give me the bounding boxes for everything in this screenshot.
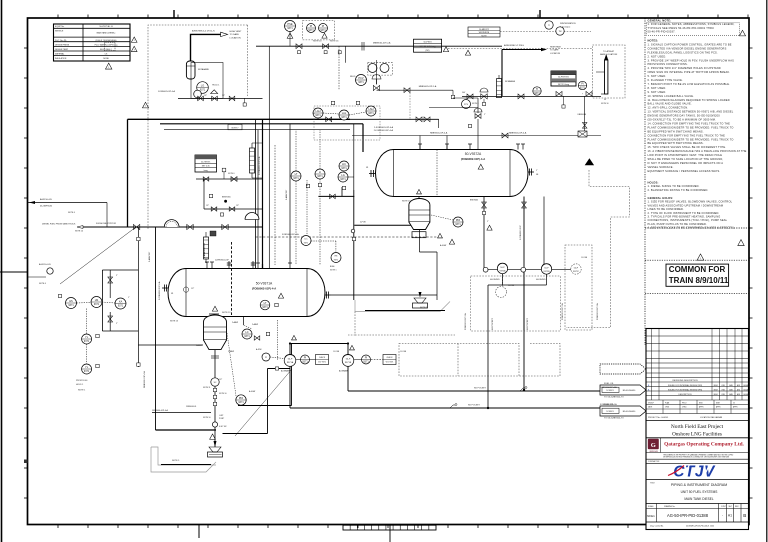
vessel2 left nozzle: [366, 167, 376, 177]
svg-text:BRK9065: BRK9065: [470, 200, 478, 202]
svg-text:Onshore LNG Facilities: Onshore LNG Facilities: [672, 431, 722, 437]
svg-text:LG: LG: [201, 84, 204, 88]
svg-text:YL: YL: [85, 335, 89, 339]
vessel2 bottom outlet A: [470, 197, 489, 269]
svg-text:North Field East Project: North Field East Project: [671, 424, 724, 430]
svg-text:LIC: LIC: [342, 162, 346, 166]
vessel1 bottom outlet LC: [232, 317, 270, 341]
vessel 50-V9371A: [168, 269, 325, 323]
parallel riser: [255, 119, 257, 268]
svg-text:TO SAFE: TO SAFE: [230, 33, 240, 36]
notes text: holds: [648, 181, 709, 192]
left lower instrument pair: [76, 309, 99, 392]
svg-text:DESIGN TEMP: DESIGN TEMP: [55, 49, 69, 51]
svg-text:HS: HS: [69, 299, 73, 303]
svg-text:AG9150-4-N: AG9150-4-N: [40, 198, 52, 201]
vessel2 bottom outlet B: [522, 197, 527, 392]
svg-text:PDI: PDI: [239, 396, 244, 400]
small drain tag: [183, 287, 194, 292]
vessel1 right outlet line: [331, 252, 437, 295]
note triangle 3: [131, 46, 137, 51]
title block fine print: [646, 453, 749, 463]
svg-text:BRK9065: BRK9065: [222, 197, 231, 199]
svg-text:2-ABW: 2-ABW: [232, 321, 238, 324]
LO tag under main line: [203, 231, 216, 258]
svg-text:(2000 X 7100 MM HIGH): (2000 X 7100 MM HIGH): [96, 40, 117, 42]
right pump suction header: [471, 267, 581, 331]
svg-text:1/2": 1/2": [191, 288, 194, 290]
svg-text:(FOB9062-01P)-4-A: (FOB9062-01P)-4-A: [252, 286, 276, 290]
suction from drain box: [238, 344, 292, 406]
svg-text:A-4GW: A-4GW: [440, 244, 446, 247]
scattered note triangles: [292, 225, 493, 350]
svg-text:1/2": 1/2": [204, 95, 207, 97]
svg-text:6. FLANGED TYPE VALVE.: 6. FLANGED TYPE VALVE.: [648, 78, 683, 82]
svg-text:46-GBF9046: 46-GBF9046: [40, 205, 53, 207]
vessel1 left nozzle: [162, 285, 173, 296]
svg-text:TRAIN 8/9/10/11: TRAIN 8/9/10/11: [669, 276, 729, 285]
svg-text:barg: barg: [204, 169, 208, 172]
title block frame: [646, 329, 749, 530]
svg-text:LI: LI: [319, 170, 321, 174]
svg-text:NBB9062-01P-4-A: NBB9062-01P-4-A: [430, 132, 448, 135]
svg-text:3. PROVIDE 1/4" WEEP HOLE IN: 3. PROVIDE 1/4" WEEP HOLE IN PSV, FLUSH …: [648, 58, 735, 62]
note triangle 1: [105, 63, 111, 69]
AG9150 utility arrow left: [28, 198, 108, 227]
filter 50-F9372: [409, 189, 430, 237]
svg-text:NO POCKET: NO POCKET: [468, 405, 481, 407]
svg-text:9371: 9371: [320, 29, 326, 32]
svg-text:LC: LC: [245, 330, 248, 334]
svg-text:CLOSE: CLOSE: [400, 351, 407, 353]
svg-text:TO 65-GZB9102-T3: TO 65-GZB9102-T3: [604, 397, 624, 399]
KO pot 50-ML9371: [186, 61, 209, 79]
svg-text:NOTE 13: NOTE 13: [222, 312, 231, 314]
pump 50-P9372A: [490, 263, 508, 281]
svg-text:PI: PI: [365, 356, 368, 360]
svg-text:B: B: [743, 513, 746, 518]
fuel oil line B: [290, 403, 617, 408]
sheet left trim line: [1, 0, 3, 542]
notes text: numbered notes: [648, 39, 747, 173]
svg-text:ISSUED FOR INTERNAL REVIEW (IF: ISSUED FOR INTERNAL REVIEW (IFR): [668, 384, 703, 387]
left instrument trio: [58, 294, 126, 309]
svg-text:NOTES:: NOTES:: [648, 39, 659, 43]
svg-text:P.& T. No. (B): P.& T. No. (B): [55, 40, 67, 42]
svg-text:4-30" SIC: 4-30" SIC: [219, 426, 227, 428]
drawing title text: [650, 483, 727, 502]
svg-text:NOTE 14: NOTE 14: [75, 231, 83, 233]
svg-text:1. DIESEL SIZING TO BE CONFI: 1. DIESEL SIZING TO BE CONFIRMED.: [648, 184, 700, 188]
svg-text:DRB9066-01P-4-A: DRB9066-01P-4-A: [152, 409, 169, 412]
svg-text:BE EQUIPPED WITH SWITCHING MEA: BE EQUIPPED WITH SWITCHING MEANS.: [648, 129, 704, 133]
diagonal instrument line: [60, 227, 136, 284]
relief table B4: [551, 71, 576, 86]
dashed stub near vessel2: [409, 90, 411, 120]
svg-text:WINTERIZE: WINTERIZE: [479, 32, 490, 34]
svg-text:KBB9066: KBB9066: [578, 114, 587, 116]
svg-text:EQUIPMENT SURFACE / PERSONNEL: EQUIPMENT SURFACE / PERSONNEL ACCESS WAY…: [648, 169, 721, 173]
svg-text:1: 1: [108, 67, 109, 69]
vessel2 top nozzle flanges: [418, 144, 525, 150]
future pump below P4: [496, 274, 515, 298]
common-for-train box: [645, 260, 749, 293]
filter B drain pad: [355, 300, 450, 312]
svg-text:2-FOB: 2-FOB: [360, 222, 366, 224]
svg-text:NOTE 11: NOTE 11: [203, 387, 210, 389]
svg-text:NOTE 1: NOTE 1: [78, 390, 86, 392]
svg-text:9371: 9371: [200, 89, 206, 92]
svg-text:G: G: [651, 442, 656, 449]
svg-text:FULL WATER+0.5/FV barg: FULL WATER+0.5/FV barg: [95, 44, 118, 47]
temporary strainer: [164, 220, 179, 227]
svg-text:9371: 9371: [358, 81, 364, 84]
svg-text:CHECK: CHECK: [386, 357, 393, 359]
svg-text:LOW POINT IN ATMOSPHERIC VENT.: LOW POINT IN ATMOSPHERIC VENT. THE DRAIN…: [648, 153, 723, 157]
svg-text:NOTE 6: NOTE 6: [472, 103, 479, 105]
svg-text:PI: PI: [581, 82, 584, 86]
level bridle 2: [250, 143, 263, 178]
svg-text:Qatargas Operating Company Ltd: Qatargas Operating Company Ltd.: [664, 441, 744, 447]
hold triangle below notes: [697, 254, 704, 260]
blanket gas station upper: [196, 168, 263, 209]
svg-text:1/2": 1/2": [219, 379, 222, 381]
svg-text:PLAN, PUMP OUTFLUS TO BE CONFI: PLAN, PUMP OUTFLUS TO BE CONFIRMED.: [648, 222, 707, 226]
filter A PDI bubble: [227, 333, 255, 405]
blanketing instrument drop: [339, 46, 389, 90]
vessel2 internal standpipe: [436, 150, 438, 197]
svg-text:9371: 9371: [308, 29, 314, 32]
black vent triangle: [585, 158, 594, 165]
svg-text:MGM: MGM: [714, 389, 719, 391]
svg-text:(50-GXX/9117-T3), TO BE A MINI: (50-GXX/9117-T3), TO BE A MINIMUM OF 300…: [648, 118, 717, 122]
svg-text:VESSEL SURFACE.: VESSEL SURFACE.: [648, 165, 674, 169]
svg-text:PDI: PDI: [456, 218, 461, 222]
svg-text:CLOSE: CLOSE: [333, 351, 340, 353]
PSV summary table B3: [414, 39, 471, 55]
svg-text:IF NOT IT ENDANGERS PERSONNEL: IF NOT IT ENDANGERS PERSONNEL OR IMPACTS…: [648, 161, 724, 165]
svg-text:9371: 9371: [363, 361, 369, 364]
svg-text:9371: 9371: [302, 361, 308, 364]
notes text: general note: [647, 19, 746, 36]
dashed signal line upper: [500, 31, 591, 33]
svg-text:9372A: 9372A: [499, 269, 506, 272]
svg-text:HOLDS:: HOLDS:: [648, 181, 659, 185]
svg-text:2-FOB9062-01P-4-A: 2-FOB9062-01P-4-A: [258, 156, 261, 175]
svg-text:TO ATM AT: TO ATM AT: [603, 50, 615, 53]
svg-text:50-TK9371: 50-TK9371: [201, 161, 210, 163]
svg-text:1: 1: [145, 106, 146, 108]
svg-text:4. ESD INTERLOCKS TO BE CONF: 4. ESD INTERLOCKS TO BE CONFIRMED (CAUSE…: [648, 226, 735, 230]
vessel1 inlet manifold: [102, 270, 138, 331]
svg-text:TW: TW: [558, 31, 561, 33]
svg-text:LOCATION: LOCATION: [550, 52, 561, 55]
svg-text:NO POCKET: NO POCKET: [492, 317, 494, 330]
svg-text:PSE: PSE: [287, 22, 292, 26]
svg-text:9371: 9371: [317, 175, 323, 178]
svg-text:CTJV: CTJV: [673, 464, 716, 481]
future connector flag (dotted): [600, 364, 646, 374]
pump 50-P9371B: [339, 344, 354, 392]
vent header valves: [296, 41, 391, 53]
svg-text:BLA9: BLA9: [330, 265, 334, 268]
svg-text:YL: YL: [85, 365, 89, 369]
vessel2 nozzle risers: [420, 136, 447, 150]
svg-text:9371: 9371: [84, 370, 90, 373]
fuel oil line A: [348, 386, 617, 391]
svg-text:PIPING & INSTRUMENT DIAGRAM: PIPING & INSTRUMENT DIAGRAM: [671, 483, 727, 487]
svg-text:9371: 9371: [68, 304, 74, 307]
svg-text:8. NOT USED.: 8. NOT USED.: [648, 86, 667, 90]
svg-text:NOTE 16: NOTE 16: [330, 41, 339, 43]
fuel oil connector flag A: [600, 383, 646, 398]
svg-text:FOB9063-01P-4-A: FOB9063-01P-4-A: [600, 386, 617, 389]
dashed vent-to-atm box D3: [593, 45, 626, 98]
svg-text:57-B921: 57-B921: [606, 411, 614, 413]
svg-text:GENERAL NOTE:: GENERAL NOTE:: [648, 19, 672, 23]
high vent arrow top-left: [191, 29, 243, 61]
svg-text:MGM: MGM: [714, 385, 719, 387]
svg-text:GROUP: GROUP: [648, 403, 654, 405]
level gauge column center: [497, 75, 516, 98]
svg-text:LT: LT: [295, 172, 298, 176]
svg-text:NOTE 3: NOTE 3: [420, 307, 428, 309]
svg-text:2. NOT USED.: 2. NOT USED.: [648, 54, 667, 58]
sheet left margin mark: [0, 271, 28, 273]
blanket gas station lower: [204, 205, 263, 216]
svg-text:XA: XA: [119, 300, 123, 304]
svg-text:2: 2: [134, 40, 135, 42]
pump header thick: [289, 342, 349, 344]
svg-text:2-ABW-9097-3J: 2-ABW-9097-3J: [203, 243, 206, 258]
svg-text:KETAHANB: KETAHANB: [505, 80, 516, 83]
svg-text:9371: 9371: [455, 223, 461, 226]
filter 50-F9371: [196, 306, 234, 353]
equipment data table: [54, 24, 131, 61]
fuel oil connector flag B: [600, 404, 646, 419]
vessel2 left-bottom piping: [318, 187, 419, 300]
svg-text:FOB9063-01P-3-A: FOB9063-01P-3-A: [561, 303, 564, 320]
svg-text:5. NOT USED.: 5. NOT USED.: [648, 74, 667, 78]
svg-text:40/45WE1-0F005-PID-00121 1000: 40/45WE1-0F005-PID-00121 1000: [686, 526, 714, 528]
svg-text:LINES TO BE CONFIRMED.: LINES TO BE CONFIRMED.: [648, 207, 685, 211]
svg-text:LT: LT: [264, 301, 267, 305]
label table B1: [195, 155, 217, 172]
svg-text:NOTE 10: NOTE 10: [313, 41, 322, 43]
svg-text:LOCATION: LOCATION: [230, 36, 241, 39]
svg-text:LSH: LSH: [368, 107, 373, 111]
notes text: general holds: [648, 196, 745, 246]
svg-text:LAH: LAH: [315, 109, 320, 113]
note triangle 2: [131, 37, 137, 42]
under-vessel drain header: [138, 345, 203, 388]
svg-text:50-PSV9372: 50-PSV9372: [558, 77, 569, 79]
svg-text:3. TYPICALS FOR PRE-BONNET H: 3. TYPICALS FOR PRE-BONNET HEATING, SAMP…: [648, 215, 721, 219]
svg-text:1/2": 1/2": [236, 205, 239, 207]
svg-text:2-FOB9063-01P: 2-FOB9063-01P: [520, 225, 522, 240]
rotated line labels right: [464, 303, 599, 330]
svg-text:DRAWING No.: DRAWING No.: [664, 505, 676, 508]
pump A local PI: [256, 348, 284, 361]
svg-text:NO POCKET: NO POCKET: [474, 388, 487, 390]
svg-text:50-PSV4: 50-PSV4: [423, 42, 432, 44]
svg-text:50-P: 50-P: [574, 268, 579, 270]
svg-text:NOTE 4: NOTE 4: [68, 212, 75, 214]
svg-text:ALISWABF: ALISWABF: [281, 370, 291, 373]
svg-text:NFE1: NFE1: [647, 514, 655, 518]
svg-text:DRB9066-01: DRB9066-01: [186, 406, 196, 408]
svg-text:10. SPRING LOADED BALL VALVE.: 10. SPRING LOADED BALL VALVE.: [648, 94, 695, 98]
svg-text:2-ABW: 2-ABW: [228, 350, 234, 353]
svg-text:PROVISIONS CONNECTIONS.: PROVISIONS CONNECTIONS.: [648, 62, 688, 66]
NBB line right: [352, 132, 601, 138]
KO pot instruments: [158, 82, 220, 98]
svg-text:FLEXHOSE AT PRYOR: FLEXHOSE AT PRYOR: [96, 222, 117, 225]
svg-text:9371: 9371: [293, 177, 299, 180]
dashed battery limit box D1: [148, 25, 248, 230]
drawing number block: [646, 504, 749, 530]
svg-text:VALVES AND ASSOCIATED UPSTREAM: VALVES AND ASSOCIATED UPSTREAM / DOWNSTR…: [648, 203, 724, 207]
svg-text:POINT: POINT: [219, 418, 224, 420]
svg-text:NOTE 4: NOTE 4: [39, 283, 46, 285]
filter B drain funnel: [413, 292, 428, 308]
svg-text:2-ABW: 2-ABW: [252, 323, 258, 326]
svg-text:A1: A1: [728, 514, 732, 518]
strainer 2 on riser: [245, 213, 259, 220]
LIC transfer instruments: [301, 180, 341, 272]
svg-text:REVISIONS DESCRIPTION: REVISIONS DESCRIPTION: [672, 380, 698, 382]
svg-text:NONE: NONE: [103, 58, 109, 60]
svg-text:9372C: 9372C: [573, 271, 580, 273]
svg-text:-: -: [722, 514, 723, 518]
svg-text:50-V9371A: 50-V9371A: [256, 282, 273, 286]
svg-text:16. A VIBRATION/SEISMIC/GAUGE: 16. A VIBRATION/SEISMIC/GAUGE HAS A SWAN…: [648, 149, 747, 153]
svg-text:MBB9062-01P-2-A: MBB9062-01P-2-A: [373, 41, 391, 44]
svg-text:LIC: LIC: [304, 239, 308, 241]
svg-text:50-P: 50-P: [500, 267, 505, 269]
svg-text:MBB9062-01P-1-A: MBB9062-01P-1-A: [419, 85, 437, 88]
svg-text:N4: N4: [536, 174, 538, 176]
dashed staircase boundary right: [566, 170, 630, 328]
svg-text:9371: 9371: [94, 303, 100, 306]
vent stack: [596, 54, 608, 94]
svg-text:40-DW4905: 40-DW4905: [490, 279, 500, 281]
pump B suction from vessel2: [543, 197, 545, 265]
svg-text:SET 0.35: SET 0.35: [202, 166, 210, 168]
dashed instrument box (hold): [368, 63, 393, 75]
svg-text:Dwg. Control No.: Dwg. Control No.: [650, 525, 664, 528]
svg-text:SHALL BE PIPED TO SAFE LOCATIO: SHALL BE PIPED TO SAFE LOCATION AT THE G…: [648, 157, 724, 161]
svg-text:2-FOB9062-01P-4-A: 2-FOB9062-01P-4-A: [374, 126, 394, 129]
svg-text:AIRBORNE-6-4 1/P-6L-N: AIRBORNE-6-4 1/P-6L-N: [192, 29, 215, 32]
control valve station mid: [462, 87, 541, 106]
svg-text:9371: 9371: [341, 116, 347, 119]
svg-text:3: 3: [134, 50, 135, 52]
svg-text:SHT: SHT: [729, 506, 732, 508]
svg-text:9371: 9371: [341, 167, 347, 170]
svg-text:50-P: 50-P: [544, 268, 549, 270]
svg-text:2-FOB9062-01P-4-A: 2-FOB9062-01P-4-A: [158, 281, 161, 300]
svg-text:VLV 9371: VLV 9371: [386, 362, 394, 364]
winterization bubbles: [545, 21, 564, 35]
svg-text:1. SIGNALS CAPTION POWER CON: 1. SIGNALS CAPTION POWER CONTROL, GRATES…: [648, 42, 732, 46]
notes panel boundary: [644, 18, 646, 345]
dashed vendor box above vessel2: [303, 21, 335, 40]
filter A outlet train: [152, 350, 227, 447]
vessel1 top nozzles: [205, 124, 292, 269]
vessel2 blanket valve cluster: [429, 98, 486, 150]
dashed signal line to vent box: [448, 48, 593, 50]
svg-text:BALL VALVE AND GLOBE VALVE.: BALL VALVE AND GLOBE VALVE.: [648, 102, 692, 106]
upper instrument bubbles row: [313, 101, 376, 120]
svg-text:NO POCKET: NO POCKET: [527, 317, 529, 330]
svg-text:1/2": 1/2": [222, 95, 225, 97]
bubble row dashed enclosure: [314, 106, 380, 140]
vessel1 nozzle flange stubs: [215, 260, 255, 269]
svg-text:FOB9062-01P-4-A: FOB9062-01P-4-A: [158, 90, 175, 93]
KO pot drain line: [178, 95, 263, 106]
svg-text:DESCRIPTION: DESCRIPTION: [679, 394, 693, 396]
svg-text:50-46-PR-PID-00037.: 50-46-PR-PID-00037.: [648, 30, 676, 34]
dashed region around drain header: [348, 312, 355, 336]
svg-text:9371: 9371: [262, 306, 268, 309]
svg-text:9371B: 9371B: [345, 362, 352, 364]
svg-text:7. BRANCH POINT TO BE AS LOW: 7. BRANCH POINT TO BE AS LOW ELEVATION A…: [648, 82, 731, 86]
svg-text:LAL: LAL: [342, 111, 347, 115]
svg-text:LOCATION: RAS LAFFAN: LOCATION: RAS LAFFAN: [700, 416, 723, 419]
KO pot enclosure: [191, 63, 223, 99]
svg-text:9371: 9371: [244, 335, 250, 338]
svg-text:50-V9371 A/...B: 50-V9371 A/...B: [99, 25, 113, 28]
svg-text:NOTE 6: NOTE 6: [228, 173, 235, 175]
svg-text:SET AT 0.35 barg: SET AT 0.35 barg: [420, 45, 436, 48]
vent header line: [256, 46, 502, 268]
svg-text:2-FOB9062-01P-4-A: 2-FOB9062-01P-4-A: [374, 129, 394, 132]
svg-text:2. BLANKETING RATING TO BE C: 2. BLANKETING RATING TO BE CONFIRMED.: [648, 188, 709, 192]
svg-text:(FOB9062-01P)-4-A: (FOB9062-01P)-4-A: [461, 157, 485, 161]
svg-text:MAIN TANK DIESEL: MAIN TANK DIESEL: [684, 497, 714, 501]
svg-text:A-45W: A-45W: [256, 348, 262, 351]
PI bubble near stack: [578, 81, 586, 94]
svg-text:12. ANTI-SPILL CONNECTION.: 12. ANTI-SPILL CONNECTION.: [648, 106, 689, 110]
svg-text:9371: 9371: [580, 87, 586, 90]
svg-text:COMMON FOR: COMMON FOR: [669, 265, 726, 274]
between-vessel instrument bubbles: [291, 130, 349, 265]
svg-text:9371: 9371: [238, 401, 244, 404]
vessel2 level gauge cluster: [338, 124, 354, 190]
svg-text:PI: PI: [304, 356, 307, 360]
drain funnel: [208, 447, 223, 457]
svg-text:CONT: CONT: [721, 506, 726, 508]
svg-text:9. NOT USED.: 9. NOT USED.: [648, 90, 667, 94]
svg-text:11. BALL/CHECK/GLACIERS REQUIR: 11. BALL/CHECK/GLACIERS REQUIRED TO SPRI…: [648, 98, 730, 102]
svg-text:AG-50-IPR-PID-01388: AG-50-IPR-PID-01388: [667, 513, 709, 518]
svg-text:CONNECTED VIA VENDOR DIESEL EN: CONNECTED VIA VENDOR DIESEL ENGINE GENER…: [648, 46, 727, 50]
svg-text:UNIT 50 FUEL SYSTEMS: UNIT 50 FUEL SYSTEMS: [681, 490, 718, 494]
svg-text:N1: N1: [366, 167, 368, 169]
svg-text:NOTE 5: NOTE 5: [172, 460, 180, 462]
svg-text:WINTERIZATION: WINTERIZATION: [560, 22, 576, 25]
graphic scale bar: [343, 525, 436, 542]
project name: [646, 424, 749, 438]
dashed future-pump region bottom center: [355, 335, 560, 376]
svg-text:INSULATION: INSULATION: [55, 57, 67, 60]
svg-text:NBB9062-01P-4-A: NBB9062-01P-4-A: [509, 132, 527, 135]
instrument air line: [256, 233, 438, 237]
svg-text:VLV 9371: VLV 9371: [318, 362, 326, 364]
svg-text:14. CONNECTION FOR EMPTYING TH: 14. CONNECTION FOR EMPTYING THE FUEL TRU…: [648, 121, 731, 125]
svg-text:2-ABW 097: 2-ABW 097: [285, 189, 288, 200]
